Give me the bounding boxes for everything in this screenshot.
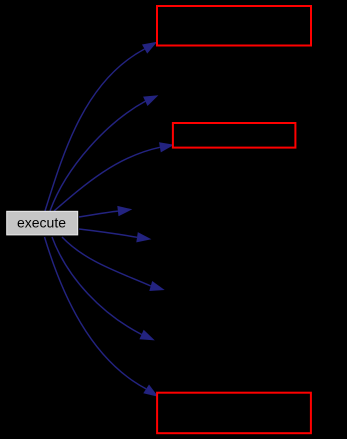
node1 top red box xyxy=(157,6,311,46)
node2 middle red box xyxy=(173,123,296,148)
edge execute->node1 (top red box) xyxy=(45,42,157,211)
node execute (gray) xyxy=(7,211,78,235)
edge execute->node6 (hidden node) xyxy=(62,237,165,291)
edge execute->node5 (hidden node) xyxy=(79,229,151,242)
edge execute->node3 (middle red box) xyxy=(54,142,174,211)
edge execute->node8 (bottom red box) xyxy=(45,237,159,397)
edge execute->node2 (hidden upper node) xyxy=(50,95,158,211)
edge execute->node4 (hidden node) xyxy=(79,206,132,217)
node3 bottom red box xyxy=(157,393,311,434)
edge execute->node7 (hidden node) xyxy=(52,237,155,340)
svg-text:execute: execute xyxy=(17,215,66,231)
